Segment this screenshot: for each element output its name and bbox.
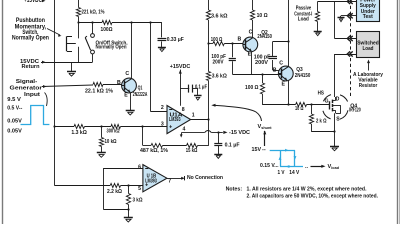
svg-text:2 k Ω: 2 k Ω: [316, 119, 327, 125]
svg-text:0.05V: 0.05V: [7, 128, 22, 134]
svg-text:3 kΩ: 3 kΩ: [133, 198, 143, 204]
svg-text:10 kΩ: 10 kΩ: [105, 139, 117, 145]
ground Q4 source: [330, 146, 339, 148]
svg-text:-15 VDC: -15 VDC: [229, 130, 251, 136]
svg-text:487 kΩ, 1%: 487 kΩ, 1%: [140, 148, 168, 154]
page border left: [2, 0, 4, 224]
transistor Q4 IRF120 MOSFET: [329, 101, 331, 109]
dashed boundary line: [350, 0, 352, 96]
svg-text:5: 5: [138, 186, 141, 192]
svg-text:HS: HS: [318, 90, 325, 96]
wire 487k to 15k: [163, 145, 187, 147]
svg-text:S: S: [336, 117, 340, 123]
transistor Q3 2N4150: [278, 66, 293, 81]
capacitor 0.33uF: [158, 38, 167, 40]
svg-text:10 Ω: 10 Ω: [295, 106, 304, 112]
resistor 10 kOhm: [101, 127, 103, 138]
annotation arrow to pushbutton: [47, 29, 60, 36]
resistor 22.1 kOhm 1%: [93, 82, 103, 86]
resistor 487 kOhm 1%: [151, 143, 163, 147]
svg-text:0.1 μF: 0.1 μF: [195, 84, 208, 90]
svg-text:Normally Open: Normally Open: [96, 45, 127, 51]
wire divider from rail: [53, 125, 55, 127]
wire PSU+ top: [318, 1, 335, 3]
svg-text:+15VDC: +15VDC: [170, 64, 191, 70]
transistor Q2 2N4150: [243, 37, 258, 52]
wire U1B output No Connection: [167, 178, 182, 180]
svg-text:E: E: [124, 93, 128, 99]
connector chevrons switched load: [347, 36, 350, 41]
annotation curve input to waveform: [45, 93, 48, 107]
svg-text:Signal-: Signal-: [16, 79, 38, 85]
wire to output node: [208, 81, 210, 120]
page border right: [397, 0, 399, 224]
svg-text:LM393: LM393: [145, 178, 157, 184]
svg-text:2N4150: 2N4150: [257, 34, 272, 40]
wire switched load return to Q4 drain: [335, 54, 357, 56]
Vshunt axis arrow: [263, 130, 266, 134]
svg-text:0.5 V--: 0.5 V--: [7, 105, 22, 111]
resistor 3.6 kOhm lower: [206, 72, 210, 81]
svg-text:1.3 kΩ: 1.3 kΩ: [71, 130, 87, 136]
wire to 100 Ohm junction: [208, 20, 210, 72]
wire to Q1 base: [103, 84, 122, 86]
resistor 3.6 kOhm upper: [206, 10, 210, 20]
wire Q1 emitter to ground: [130, 93, 132, 111]
wire bottom bus to U1B: [55, 185, 111, 187]
wire 15k to output node: [198, 145, 209, 147]
wire PSU return to ground: [341, 15, 357, 17]
svg-text:15 kΩ: 15 kΩ: [186, 148, 198, 154]
svg-text:Q1: Q1: [138, 85, 143, 91]
hysteresis loop cyan: [270, 150, 295, 152]
wire Q2 emitter: [251, 52, 253, 75]
svg-text:D: D: [336, 96, 340, 102]
ground passive load: [314, 31, 322, 33]
wire PSU+ to box: [335, 1, 357, 3]
wire 300k to pin3: [121, 126, 168, 128]
svg-text:100 Ω: 100 Ω: [245, 85, 259, 91]
svg-text:4: 4: [183, 126, 186, 132]
switch S2 on/off: [91, 34, 95, 38]
svg-text:Generator: Generator: [10, 86, 43, 92]
wire Q3 emitter: [288, 81, 290, 105]
wire pin6: [104, 168, 143, 170]
ground Q1: [126, 110, 135, 112]
wire to on/off switch: [92, 23, 94, 34]
svg-text:Normally Open: Normally Open: [12, 36, 49, 42]
resistor 15 kOhm: [187, 143, 198, 147]
ground return: [71, 62, 73, 72]
wire signal input: [42, 85, 93, 87]
wire 221k feed from top: [78, 0, 80, 8]
svg-text:C: C: [249, 29, 253, 35]
svg-text:+15VDC: +15VDC: [24, 0, 43, 4]
svg-text:Resistor: Resistor: [359, 83, 378, 89]
svg-text:1: 1: [192, 113, 195, 119]
resistor 10 Ohm top: [250, 10, 254, 20]
svg-text:2. All capacitors are 50 WVDC,: 2. All capacitors are 50 WVDC, 10%, exce…: [247, 193, 379, 199]
svg-text:3.6 kΩ: 3.6 kΩ: [212, 74, 227, 80]
svg-text:C: C: [279, 61, 283, 67]
wire 1.3k to 300k: [85, 126, 111, 128]
svg-text:9.5 V: 9.5 V: [7, 97, 21, 103]
wire Q3 collector: [288, 0, 290, 67]
wire rail corner down: [161, 23, 163, 38]
svg-text:B: B: [238, 37, 242, 43]
waveform pulse cyan: [21, 106, 50, 125]
resistor 1.3 kOhm: [74, 124, 85, 128]
svg-text:Load: Load: [363, 46, 374, 52]
svg-text:100Ω: 100Ω: [101, 27, 113, 33]
svg-text:2.2 kΩ: 2.2 kΩ: [107, 189, 122, 195]
svg-text:10 Ω: 10 Ω: [257, 13, 268, 19]
capacitor 100pF 200V left: [232, 44, 234, 58]
svg-text:8: 8: [182, 107, 185, 113]
wire to Q3 base: [263, 74, 282, 76]
resistor 2 kOhm: [311, 105, 313, 114]
wire feedback drop: [142, 127, 144, 146]
wire on/off bottom: [92, 54, 94, 62]
svg-text:Pushbutton: Pushbutton: [16, 18, 45, 24]
wire output net top: [208, 0, 210, 10]
svg-text:B: B: [117, 80, 121, 86]
wire pin2 from rail: [150, 23, 152, 112]
wire 221k to node A: [78, 17, 80, 23]
svg-text:1. All resistors are 1/4 W 2%,: 1. All resistors are 1/4 W 2%, except wh…: [247, 187, 367, 193]
ground PSU return: [338, 17, 345, 19]
svg-text:Notes:: Notes:: [226, 187, 243, 193]
wire U1A output: [191, 119, 208, 121]
svg-text:200V: 200V: [213, 59, 224, 65]
wire 15VDC return: [41, 62, 93, 64]
ground 10k: [97, 152, 106, 154]
wire +15VDC rail vertical: [54, 0, 56, 186]
svg-text:7: 7: [168, 178, 171, 184]
ground 0.33uF: [158, 47, 166, 49]
resistor 100 Ohm lower: [262, 74, 264, 83]
wire rail to 0.33uF corner: [112, 22, 162, 24]
svg-text:0.1 μF: 0.1 μF: [225, 142, 241, 148]
svg-text:--: --: [262, 147, 266, 153]
svg-text:1 V: 1 V: [278, 170, 285, 176]
svg-text:221 kΩ, 1%: 221 kΩ, 1%: [82, 10, 105, 16]
svg-text:No Connection: No Connection: [187, 175, 223, 181]
wire PSU+ down to switched load: [334, 1, 336, 38]
svg-text:G: G: [325, 99, 329, 105]
svg-text:Return: Return: [22, 64, 40, 70]
annotation curve Vshunt to output node: [214, 105, 262, 121]
svg-text:3: 3: [161, 122, 164, 128]
svg-text:Load: Load: [298, 17, 309, 23]
svg-text:22.1 kΩ 1%: 22.1 kΩ 1%: [85, 88, 113, 94]
svg-text:Test: Test: [363, 14, 373, 20]
svg-text:6: 6: [138, 165, 141, 171]
svg-text:..: ..: [305, 164, 309, 170]
svg-text:B: B: [273, 67, 277, 73]
resistor 3 kOhm: [128, 186, 130, 194]
resistor 2.2 kOhm: [110, 183, 120, 187]
wire pin4 -15V: [181, 133, 183, 135]
box Switched Load: [357, 32, 380, 58]
box Power Supply Under Test: [357, 0, 380, 22]
svg-text:15V: 15V: [252, 147, 262, 153]
svg-text:IRF120: IRF120: [349, 108, 361, 114]
svg-text:LM393: LM393: [169, 117, 181, 123]
svg-text:2N4150: 2N4150: [295, 73, 311, 79]
resistor 300 kOhm: [111, 124, 121, 128]
svg-text:14 V: 14 V: [289, 170, 299, 176]
svg-text:0.33 μF: 0.33 μF: [167, 37, 185, 43]
svg-text:300 kΩ: 300 kΩ: [107, 129, 120, 135]
resistor 10 Ohm gate: [296, 102, 307, 106]
resistor passive load: [317, 1, 319, 11]
switch S1 pushbutton momentary: [78, 23, 80, 39]
svg-text:Input: Input: [24, 92, 40, 98]
resistor 100 Ohm rail: [102, 20, 112, 24]
svg-text:0.15 V...: 0.15 V...: [260, 163, 279, 169]
svg-text:3.6 kΩ: 3.6 kΩ: [211, 14, 228, 20]
svg-text:E: E: [282, 82, 286, 88]
ground 0.1uF -15V: [214, 154, 222, 156]
svg-text:200V: 200V: [255, 60, 268, 66]
svg-text:E: E: [248, 51, 252, 57]
wire Q2 collector 10 Ohm: [252, 0, 254, 10]
svg-text:0.05V: 0.05V: [7, 118, 22, 124]
svg-text:C: C: [125, 71, 129, 77]
transistor Q1 2N2222A: [122, 78, 137, 93]
capacitor 100pF 200V right: [273, 41, 289, 43]
op-amp U1A LM393: [167, 106, 191, 134]
wire Q1 collector: [131, 23, 133, 79]
svg-text:2: 2: [161, 105, 164, 111]
svg-text:2N2222A: 2N2222A: [133, 92, 148, 98]
annotation A Laboratory Variable Resistor: [367, 60, 370, 64]
wire switched rail: [79, 22, 102, 24]
ground 3k: [124, 217, 133, 219]
resistor 221 kOhm 1%: [76, 8, 80, 17]
op-amp U1B LM393: [143, 165, 167, 192]
capacitor 0.1uF -15V rail: [218, 132, 220, 143]
capacitor 0.1uF at pin8: [180, 88, 189, 90]
ground 0.1uF pin8: [194, 95, 202, 97]
